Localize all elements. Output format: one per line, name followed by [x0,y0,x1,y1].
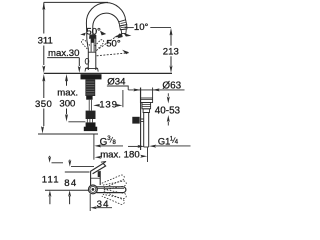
side lever slab [91,163,106,173]
arm solid [97,187,126,193]
svg-text:40-53: 40-53 [155,105,181,116]
mousseur (banded outlet) [119,20,127,26]
svg-text:50°: 50° [86,26,101,37]
ref line 2 [71,166,94,168]
svg-text:84: 84 [64,178,77,189]
svg-text:34: 34 [97,199,110,210]
dim 34 [89,194,91,211]
svg-text:max. 180: max. 180 [100,150,139,161]
svg-text:350: 350 [35,99,52,110]
body base flare [85,68,98,72]
escutcheon nut below deck (dark) [81,74,102,79]
hose connector dark [86,111,96,119]
svg-text:139: 139 [99,100,118,111]
spray angle arrows [114,33,122,37]
deck line bottom view [45,189,89,191]
ref line body top [65,171,90,173]
svg-text:50°: 50° [106,39,121,50]
hose-bottom ref line [38,133,98,135]
lever vertical solid [91,38,94,52]
top reference line at spout apex [44,1,108,3]
dim max.300 [65,74,68,82]
dim 40-53 [167,93,169,96]
spout arc outer [86,3,125,23]
dim 311 [43,2,45,33]
10deg label line [125,27,134,29]
svg-text:10°: 10° [134,22,149,33]
spout arc inner [93,13,120,26]
spout swivel dashed rays with 50deg [96,34,120,51]
center rod lines between shank and hoses [89,100,91,111]
svg-text:8: 8 [113,140,117,146]
hose end nuts dark [86,122,96,127]
side body column [91,171,101,185]
dim 111 top arrow [49,156,51,157]
pop-up rod [140,88,142,151]
dim 213 [170,28,173,36]
drain flange (plug top) [140,98,152,103]
hub circles [89,185,98,194]
drain body [142,103,151,109]
svg-text:111: 111 [42,174,60,185]
threaded shank dark [85,79,95,96]
drain pipe [144,113,149,148]
faucet axis ref line [93,134,95,160]
body top line [88,51,96,53]
ref line lever tip [52,162,64,164]
small nut below shank [86,96,92,100]
dim 139 [93,104,100,107]
svg-text:213: 213 [163,47,179,58]
below arrows up [48,190,51,196]
riser left edge into body [86,23,88,70]
lever dashed left [81,40,90,49]
dashed arms [102,175,126,204]
dim 350 [42,74,45,82]
svg-text:G1: G1 [158,136,171,147]
deck line [44,72,172,74]
pipe diameter left arrow [128,145,140,147]
svg-text:300: 300 [59,99,75,110]
riser inner edge [92,26,94,35]
body right edge [95,35,97,70]
svg-text:4: 4 [175,140,179,146]
pull-rod knob [85,58,89,64]
svg-text:max.: max. [57,87,78,98]
rod port nut dark [132,117,139,124]
50deg arc arrows (lever swing) [80,33,86,36]
lever dashed right [95,40,104,49]
svg-text:311: 311 [38,35,53,46]
